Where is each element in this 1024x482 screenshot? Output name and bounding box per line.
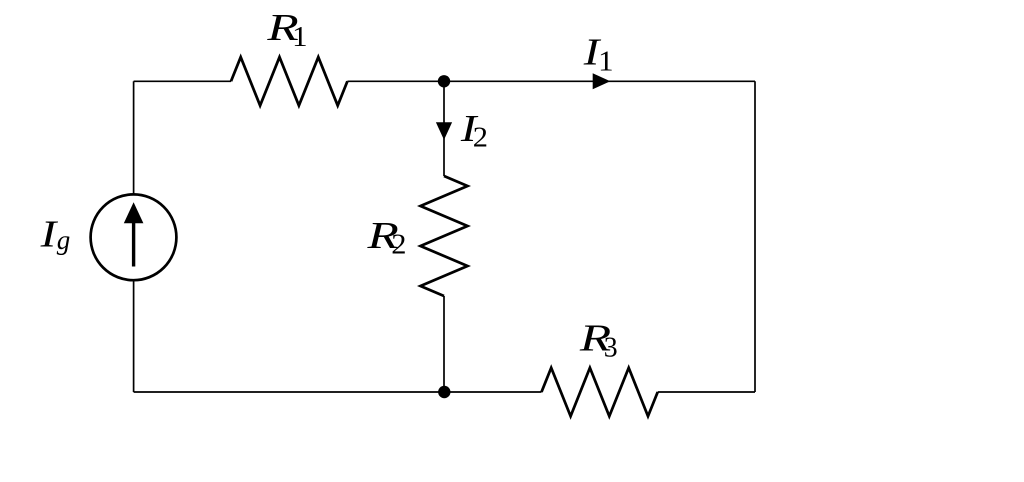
wire: left side vertical, top segment (corner to current source) — [133, 81, 135, 194]
svg-text:g: g — [57, 225, 71, 255]
current source Ig (circle) — [91, 194, 177, 280]
wire: R3 right terminal to bottom-right corner — [658, 391, 755, 393]
svg-text:2: 2 — [391, 230, 406, 261]
wire top-left: from top-left corner to R1 left terminal — [134, 80, 231, 82]
current source Ig (arrow) — [124, 202, 144, 266]
wire: R1 right terminal to node A — [347, 80, 444, 82]
wire: node A down to R2 top terminal — [443, 81, 445, 176]
wire: R2 bottom terminal to node B — [443, 296, 445, 392]
node B (bottom junction dot) — [438, 386, 450, 398]
wire: left side vertical, bottom segment (current source to corner) — [133, 281, 135, 392]
node A (top junction dot) — [438, 75, 450, 87]
svg-text:1: 1 — [598, 46, 613, 77]
label I1 — [583, 32, 614, 78]
wire: bottom-left corner to node B — [134, 391, 444, 393]
svg-text:3: 3 — [604, 333, 618, 364]
label R2 — [366, 215, 406, 261]
wire: node A to top-right corner — [444, 80, 755, 82]
current arrow I1 (on top wire) — [593, 73, 611, 89]
label I2 — [460, 108, 488, 154]
label R3 — [579, 317, 618, 363]
wire: node B to R3 left terminal — [444, 391, 542, 393]
svg-text:2: 2 — [473, 123, 488, 154]
current arrow I2 (on middle branch) — [436, 122, 452, 140]
label R1 — [266, 7, 307, 53]
resistor R3 — [542, 368, 658, 416]
wire: right side vertical — [754, 81, 756, 392]
label Ig — [39, 214, 70, 256]
resistor R1 — [231, 57, 347, 105]
svg-text:1: 1 — [292, 22, 307, 53]
resistor R2 — [421, 176, 468, 296]
